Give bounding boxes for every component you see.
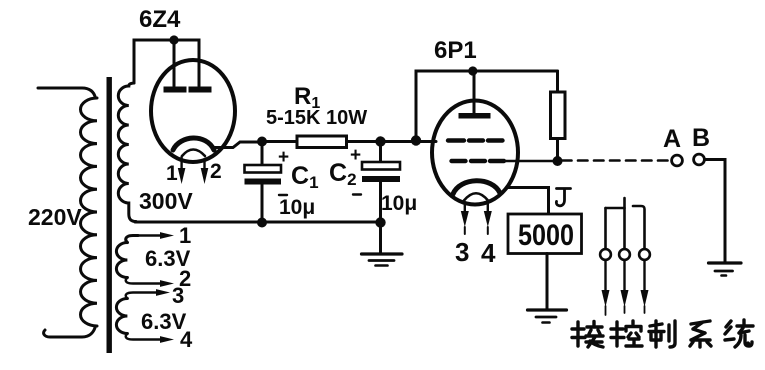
relay J coil box xyxy=(508,214,582,254)
node dot C2 bottom xyxy=(375,217,385,227)
6Z4 heater lead arrow 1 xyxy=(180,157,182,170)
node dot 6P1 grid junction xyxy=(411,135,421,145)
char zhi xyxy=(649,321,675,347)
tube 6P1 envelope xyxy=(432,101,518,205)
transformer core xyxy=(107,77,112,353)
char tong xyxy=(725,320,753,347)
wire C2 bottom to ground xyxy=(379,223,382,253)
relay contact circle right xyxy=(639,249,650,260)
C1 top plate xyxy=(245,165,282,173)
relay contact middle tail arrow xyxy=(623,260,625,292)
ground under B xyxy=(709,261,742,264)
svg-text:3: 3 xyxy=(172,283,184,308)
C2 bottom plate xyxy=(362,176,400,182)
svg-text:+: + xyxy=(278,147,289,168)
capacitor C1 lead top xyxy=(261,142,264,166)
svg-text:+: + xyxy=(350,145,361,166)
transformer T1 primary top lead xyxy=(38,88,96,98)
wire B to ground xyxy=(705,160,726,263)
tube 6Z4 envelope xyxy=(151,60,235,162)
char jie xyxy=(572,322,603,348)
6P1 grid 2 wire to node xyxy=(504,160,558,162)
svg-text:5-15K 10W: 5-15K 10W xyxy=(266,107,367,129)
C2 lead bottom xyxy=(379,182,382,223)
svg-text:1: 1 xyxy=(166,162,178,185)
svg-text:B: B xyxy=(692,124,710,152)
resistor R2 lead bottom xyxy=(556,139,559,162)
wire B+ rail node5 to R1 to C2 to 6P1 grid xyxy=(262,140,436,143)
dashed wire node to contact A xyxy=(562,159,670,162)
resistor R2 lead top xyxy=(556,71,559,92)
wire relay to ground xyxy=(546,254,549,310)
wire HV secondary top to 6Z4 plates xyxy=(134,40,199,86)
period xyxy=(746,341,750,345)
wire 6P1 plate rail xyxy=(416,71,558,141)
transformer HV secondary winding 300V xyxy=(118,83,136,222)
relay contact crossbar left-middle xyxy=(606,207,625,210)
C1 bottom plate xyxy=(245,179,282,185)
svg-text:4: 4 xyxy=(481,238,496,268)
ground return wire xyxy=(135,221,381,224)
ground under relay xyxy=(528,308,567,311)
svg-text:A: A xyxy=(663,125,681,153)
6P1 plate lead xyxy=(473,71,476,113)
transformer 6.3V winding no.2 bottom lead arrow 4 xyxy=(126,334,160,340)
svg-text:3: 3 xyxy=(455,237,469,267)
node dot C2 top xyxy=(375,136,385,146)
6Z4 anode plate left xyxy=(164,87,187,93)
ground under C2 xyxy=(362,252,403,255)
wire 6P1 cathode to relay J xyxy=(507,188,549,215)
relay contact circle left xyxy=(600,249,611,260)
transformer 6.3V winding no.1 xyxy=(116,243,127,278)
svg-text:1: 1 xyxy=(179,223,191,248)
transformer 6.3V winding no.1 bottom lead arrow 2 xyxy=(126,278,160,284)
node dot screen/contact xyxy=(553,156,563,166)
relay contact left lead xyxy=(604,208,607,249)
6Z4 heater arc xyxy=(182,150,205,157)
6P1 heater lead arrow 4 xyxy=(487,203,489,213)
transformer 6.3V winding no.1 top lead arrow 1 xyxy=(126,236,138,243)
label J xyxy=(556,189,570,206)
capacitor C2 lead top xyxy=(379,142,382,163)
contact A terminal xyxy=(672,155,683,166)
svg-text:C1: C1 xyxy=(291,162,319,192)
svg-text:10μ: 10μ xyxy=(279,196,315,219)
transformer 6.3V winding no.2 top lead arrow 3 xyxy=(126,293,156,299)
resistor R2 body xyxy=(551,92,566,139)
resistor R1 body xyxy=(297,136,347,148)
relay contact circle middle xyxy=(619,249,630,260)
svg-text:6Z4: 6Z4 xyxy=(139,6,181,33)
C2 minus mark xyxy=(353,193,361,195)
svg-text:220V: 220V xyxy=(28,204,82,230)
6P1 heater arc xyxy=(464,193,488,200)
6P1 cathode arc xyxy=(453,181,500,194)
6Z4 cathode arc xyxy=(173,138,214,150)
transformer T1 primary bottom lead xyxy=(44,326,96,337)
C2 top plate xyxy=(362,162,400,170)
transformer T1 primary winding 220V xyxy=(81,98,98,326)
wire 6Z4 cathode to node 5 xyxy=(214,142,262,148)
6Z4 heater lead arrow 2 xyxy=(203,159,205,170)
svg-text:5000: 5000 xyxy=(518,219,574,252)
6P1 grid 2 dashes xyxy=(452,159,505,163)
6Z4 anode plate right xyxy=(189,87,212,93)
relay contact left tail arrow xyxy=(604,260,606,292)
C1 minus mark xyxy=(279,194,287,196)
relay contact middle lead xyxy=(623,198,626,249)
node dot C1 bottom xyxy=(257,218,267,228)
6P1 anode plate bar xyxy=(459,113,491,119)
wire left plate lead xyxy=(173,40,176,86)
node dot 6P1 plate xyxy=(468,66,477,75)
svg-text:4: 4 xyxy=(180,327,193,352)
node dot on 6Z4 plate wire xyxy=(169,35,178,44)
relay contact right hook xyxy=(633,206,645,249)
transformer 6.3V winding no.2 xyxy=(116,299,127,334)
contact B terminal xyxy=(694,154,705,165)
svg-text:300V: 300V xyxy=(139,188,193,214)
6P1 grid 1 dashes xyxy=(448,138,503,142)
relay contact right tail arrow xyxy=(643,260,645,292)
svg-text:6P1: 6P1 xyxy=(434,37,477,64)
C1 lead bottom xyxy=(261,185,264,224)
char kong xyxy=(611,321,642,346)
svg-text:2: 2 xyxy=(210,160,222,183)
node dot 5 xyxy=(257,137,267,147)
svg-text:10μ: 10μ xyxy=(381,192,417,215)
char xi xyxy=(690,321,711,347)
6P1 heater lead arrow 3 xyxy=(464,203,466,213)
label jie-kong-zhi-xi-tong (connect to control system) xyxy=(572,320,753,347)
